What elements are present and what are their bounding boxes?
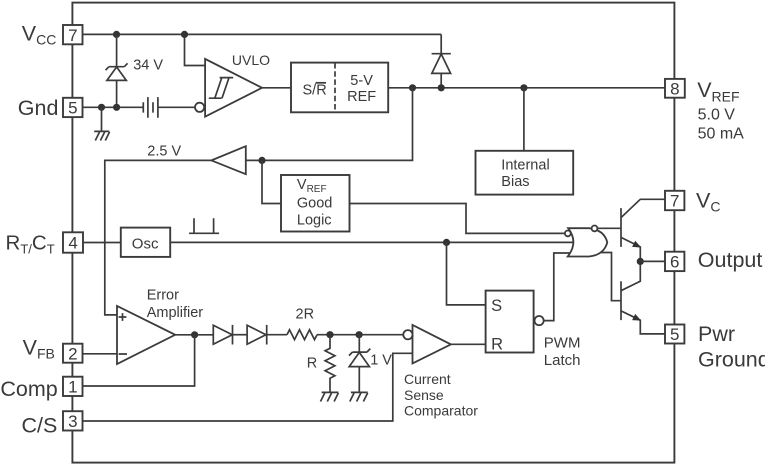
label 5-V REF — [347, 73, 376, 105]
svg-text:Internal: Internal — [501, 158, 549, 174]
svg-text:REF: REF — [347, 89, 376, 105]
pin 8 box (Vref) — [665, 79, 685, 99]
svg-text:Ground: Ground — [698, 347, 765, 371]
pin 2 box (Vfb) — [63, 344, 83, 364]
transistor Q2 (lower totem pole) — [621, 261, 665, 334]
wire UVLO output — [262, 87, 291, 89]
zener diode 1 V clamp — [349, 335, 370, 393]
wire UVLO noninverting input — [185, 34, 206, 65]
label Vref Good Logic — [297, 177, 332, 229]
node zener 1V junction — [356, 331, 363, 338]
label PWM Latch — [544, 334, 581, 369]
node REF-bias junction — [520, 84, 527, 91]
wire to Vref Good Logic input — [262, 160, 281, 203]
svg-text:50 mA: 50 mA — [698, 125, 745, 142]
node Vcc-zener junction — [113, 31, 120, 38]
wire D1 to D2 — [233, 334, 248, 336]
svg-text:5: 5 — [68, 99, 77, 118]
svg-text:7: 7 — [670, 192, 679, 211]
pin label Pwr Ground — [698, 322, 765, 371]
wire output to pin 6 — [640, 260, 665, 262]
svg-text:Current: Current — [404, 371, 451, 387]
pin 3 box (C/S) — [63, 411, 83, 431]
buffer 2.5 V reference amplifier — [211, 146, 245, 174]
svg-text:PWM: PWM — [544, 334, 581, 351]
svg-text:R: R — [491, 336, 503, 354]
label Internal Bias — [501, 158, 549, 191]
svg-text:C/S: C/S — [22, 413, 58, 437]
svg-text:Output: Output — [698, 248, 763, 272]
wire D2 to 2R — [267, 334, 287, 336]
svg-text:2: 2 — [68, 344, 77, 363]
node REF-buffer junction — [409, 84, 416, 91]
svg-text:6: 6 — [670, 253, 679, 272]
wire battery to UVLO inverting input — [158, 106, 195, 108]
ground (Gnd pin) — [94, 107, 109, 140]
svg-text:5.0 V: 5.0 V — [698, 107, 736, 124]
block S/R + 5-V REF — [291, 63, 388, 113]
svg-text:Comparator: Comparator — [404, 403, 478, 419]
svg-text:UVLO: UVLO — [232, 52, 270, 68]
pin 1 box (Comp) — [63, 377, 83, 397]
wire pin4 to Osc — [83, 242, 120, 244]
svg-text:Error: Error — [147, 288, 179, 304]
svg-text:VREF: VREF — [697, 78, 739, 105]
wire good logic to gate inverted input — [350, 204, 566, 234]
op-amp error amplifier — [117, 306, 175, 364]
node Vcc-UVLO junction — [181, 31, 188, 38]
wire EA output — [175, 334, 213, 336]
svg-text:3: 3 — [68, 412, 77, 431]
svg-text:7: 7 — [68, 26, 77, 45]
transistor Q1 (upper totem pole) — [621, 199, 665, 261]
block Osc — [121, 228, 170, 257]
svg-text:8: 8 — [670, 80, 679, 99]
svg-text:1: 1 — [68, 378, 77, 397]
resistor R — [325, 335, 335, 393]
svg-text:5-V: 5-V — [350, 73, 373, 89]
diode Vref clamp to Vcc — [432, 34, 451, 87]
svg-text:Bias: Bias — [501, 174, 529, 190]
pin 4 box (RT/CT) — [63, 232, 83, 252]
wire latch output to gate — [544, 253, 570, 321]
block Vref Good Logic — [281, 175, 350, 232]
svg-text:R: R — [307, 356, 317, 372]
svg-text:RT/CT: RT/CT — [6, 231, 55, 256]
IC boundary — [72, 3, 674, 463]
op-amp current sense comparator — [403, 325, 451, 363]
node osc-latch junction — [443, 239, 450, 246]
pin 6 box (Output) — [665, 252, 684, 272]
svg-text:34 V: 34 V — [133, 58, 163, 74]
svg-text:S: S — [491, 297, 502, 315]
wire REF output rail — [388, 87, 665, 89]
block Internal Bias — [476, 151, 574, 195]
op-amp U1 UVLO comparator — [195, 59, 262, 117]
node buffer-goodlogic junction — [258, 157, 265, 164]
wire 2.5V to error amp noninverting input — [105, 160, 212, 315]
svg-text:VCC: VCC — [22, 21, 57, 47]
node output junction — [637, 258, 644, 265]
ground (divider R) — [321, 392, 339, 401]
svg-text:Sense: Sense — [404, 387, 444, 403]
svg-text:VFB: VFB — [23, 335, 55, 361]
svg-text:Gnd: Gnd — [18, 96, 59, 120]
svg-text:2R: 2R — [296, 306, 315, 322]
svg-text:Pwr: Pwr — [698, 322, 735, 346]
svg-text:Comp: Comp — [0, 377, 57, 401]
node 2R-R junction — [326, 331, 333, 338]
svg-text:Latch: Latch — [544, 352, 581, 369]
node REF-diode junction — [438, 84, 445, 91]
label S/R — [303, 83, 327, 99]
pin 5 box (Gnd) — [63, 98, 83, 118]
battery UVLO threshold source — [143, 97, 158, 118]
svg-text:Logic: Logic — [297, 213, 332, 229]
wire clock to latch S input — [447, 242, 486, 305]
wire Comp feedback — [83, 335, 195, 386]
node Gnd-zener junction — [113, 104, 120, 111]
pin 7 box (Vcc) — [63, 25, 83, 45]
wire Vcc rail — [83, 33, 442, 35]
wire gate to lower transistor base — [601, 253, 621, 301]
svg-text:4: 4 — [68, 234, 77, 253]
svg-text:2.5 V: 2.5 V — [147, 144, 181, 160]
wire Osc output to gate — [170, 241, 574, 243]
wire Gnd — [83, 106, 144, 108]
pin 7 box (Vc) — [665, 191, 684, 211]
svg-text:Osc: Osc — [132, 235, 159, 252]
svg-text:Good: Good — [297, 196, 332, 212]
pin 5 box (Pwr Ground) — [665, 325, 684, 345]
diode D2 — [247, 325, 267, 345]
wire bias supply — [523, 88, 525, 151]
wire C/S input — [83, 353, 413, 421]
svg-text:Amplifier: Amplifier — [147, 305, 204, 321]
label Current Sense Comparator — [404, 371, 478, 419]
wire 2R to comparator — [317, 334, 403, 336]
gate output OR — [565, 226, 607, 257]
svg-text:VC: VC — [696, 188, 720, 214]
zener diode 34 V — [106, 35, 128, 107]
wire gate to upper transistor base — [597, 227, 621, 229]
diode D1 — [213, 325, 232, 345]
svg-text:5: 5 — [670, 325, 679, 344]
wire REF to 2.5V buffer input — [246, 88, 413, 161]
svg-text:S/R: S/R — [303, 83, 327, 99]
label Error Amplifier — [147, 288, 204, 322]
resistor 2R — [287, 330, 317, 340]
node Gnd-ground junction — [98, 104, 105, 111]
node EA output junction — [191, 331, 198, 338]
ground (zener 1V) — [350, 392, 368, 401]
svg-text:1 V: 1 V — [370, 353, 392, 369]
flip-flop PWM latch — [486, 291, 544, 354]
clock pulses symbol — [189, 218, 219, 233]
wire comparator output to latch R — [451, 343, 486, 345]
wire Vfb to inverting input — [83, 353, 118, 355]
